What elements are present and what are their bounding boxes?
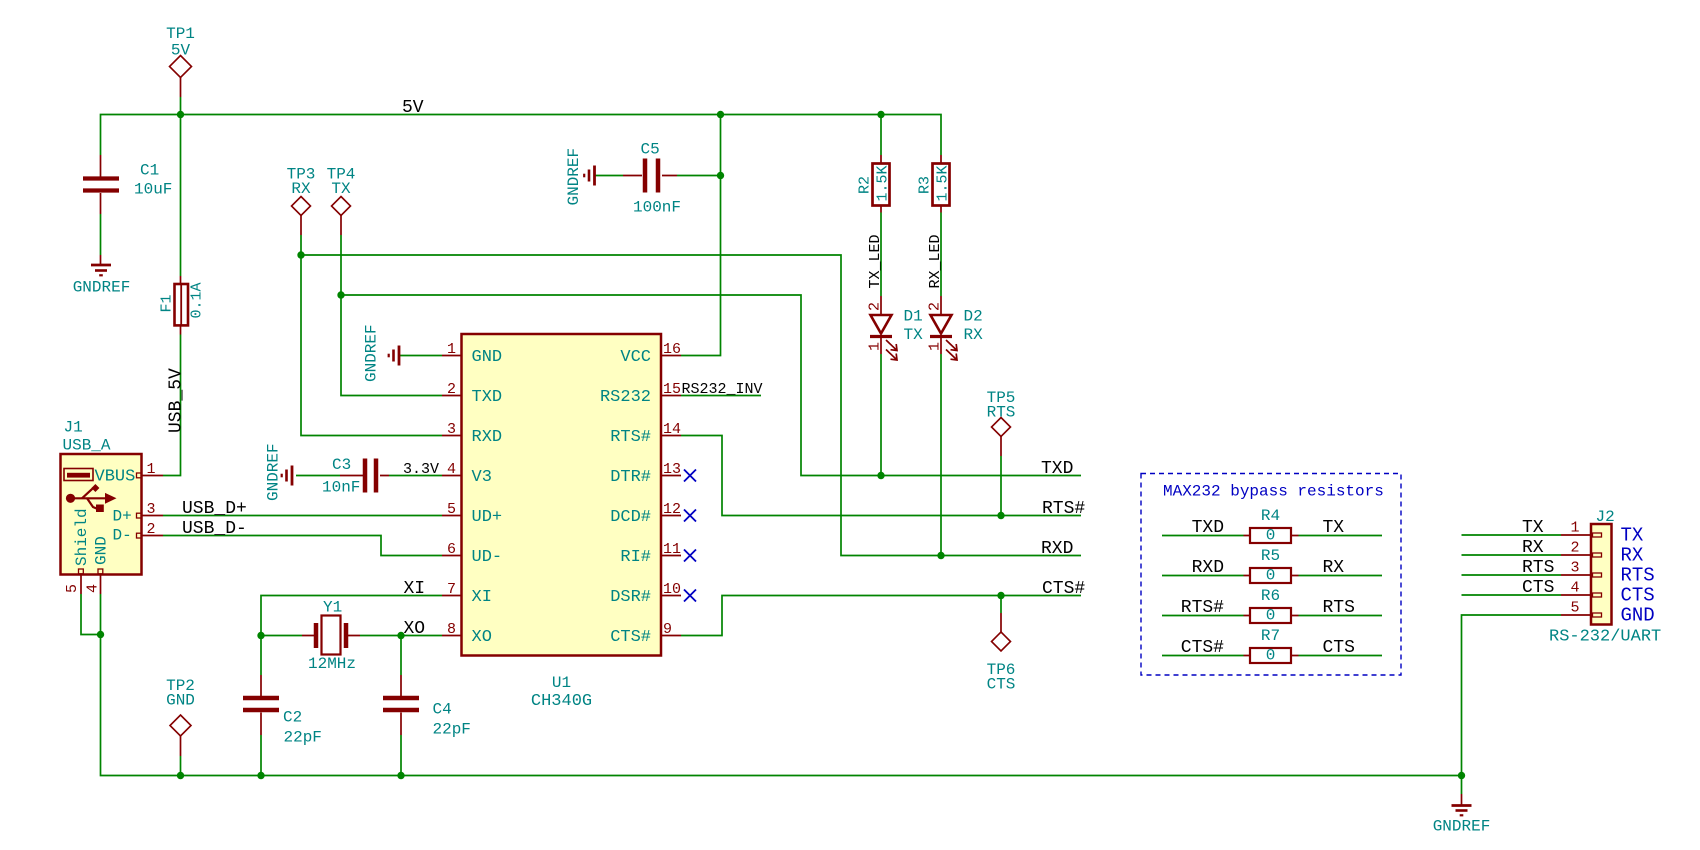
- svg-text:GND: GND: [472, 348, 503, 367]
- svg-text:16: 16: [663, 341, 681, 358]
- svg-text:R4: R4: [1261, 507, 1280, 525]
- svg-text:RS-232/UART: RS-232/UART: [1549, 628, 1661, 647]
- svg-text:TX: TX: [1621, 525, 1644, 547]
- svg-text:CTS#: CTS#: [1042, 579, 1085, 599]
- svg-text:RTS#: RTS#: [1042, 499, 1085, 519]
- svg-text:RXD: RXD: [1192, 558, 1224, 578]
- svg-text:J1: J1: [64, 419, 83, 437]
- svg-text:TXD: TXD: [1192, 518, 1224, 538]
- svg-text:4: 4: [1570, 580, 1579, 597]
- svg-text:DTR#: DTR#: [610, 468, 651, 487]
- svg-text:R3: R3: [917, 176, 934, 194]
- svg-text:100nF: 100nF: [633, 199, 681, 217]
- svg-text:2: 2: [927, 302, 944, 311]
- svg-text:J2: J2: [1596, 508, 1615, 526]
- svg-text:0: 0: [1266, 567, 1276, 585]
- svg-text:2: 2: [867, 302, 884, 311]
- svg-text:XO: XO: [404, 619, 426, 639]
- svg-text:CH340G: CH340G: [531, 692, 592, 711]
- svg-text:1: 1: [927, 342, 944, 351]
- svg-text:3.3V: 3.3V: [403, 461, 439, 478]
- svg-text:10uF: 10uF: [134, 181, 172, 199]
- svg-text:8: 8: [447, 621, 456, 638]
- svg-text:MAX232 bypass resistors: MAX232 bypass resistors: [1163, 483, 1384, 501]
- svg-text:GND: GND: [166, 692, 195, 710]
- svg-text:1: 1: [146, 461, 155, 478]
- svg-text:GNDREF: GNDREF: [265, 443, 283, 501]
- svg-text:RTS: RTS: [987, 404, 1016, 422]
- svg-text:GNDREF: GNDREF: [1433, 818, 1491, 836]
- svg-text:TX: TX: [1522, 518, 1544, 538]
- svg-text:TXD: TXD: [472, 388, 503, 407]
- svg-text:TXD: TXD: [1041, 459, 1073, 479]
- svg-text:12: 12: [663, 501, 681, 518]
- svg-text:C4: C4: [433, 701, 452, 719]
- svg-text:RTS#: RTS#: [1181, 598, 1224, 618]
- svg-text:RTS: RTS: [1323, 598, 1355, 618]
- svg-text:0: 0: [1266, 647, 1276, 665]
- svg-text:3: 3: [1570, 560, 1579, 577]
- svg-text:2: 2: [447, 381, 456, 398]
- svg-text:CTS#: CTS#: [1181, 638, 1224, 658]
- svg-text:1: 1: [1570, 520, 1579, 537]
- svg-text:R6: R6: [1261, 587, 1280, 605]
- svg-text:RX: RX: [1323, 558, 1345, 578]
- svg-text:CTS: CTS: [1522, 578, 1554, 598]
- svg-text:RTS: RTS: [1522, 558, 1554, 578]
- svg-text:10nF: 10nF: [322, 479, 360, 497]
- svg-text:TP1: TP1: [166, 25, 195, 43]
- svg-text:RX: RX: [1522, 538, 1544, 558]
- svg-text:RS232_INV: RS232_INV: [682, 381, 763, 398]
- svg-text:DSR#: DSR#: [610, 588, 651, 607]
- svg-text:RS232: RS232: [600, 388, 651, 407]
- svg-text:2: 2: [146, 521, 155, 538]
- svg-text:C1: C1: [140, 162, 159, 180]
- svg-text:USB_5V: USB_5V: [167, 368, 187, 433]
- svg-text:1.5K: 1.5K: [875, 165, 892, 201]
- svg-text:5: 5: [447, 501, 456, 518]
- svg-text:9: 9: [663, 621, 672, 638]
- svg-text:TX: TX: [331, 180, 351, 198]
- svg-text:VCC: VCC: [620, 348, 651, 367]
- svg-text:10: 10: [663, 581, 681, 598]
- svg-text:C3: C3: [332, 456, 351, 474]
- svg-text:Shield: Shield: [73, 508, 91, 566]
- svg-text:F1: F1: [159, 294, 176, 312]
- svg-text:RX: RX: [291, 180, 311, 198]
- svg-text:GND: GND: [93, 536, 111, 565]
- svg-text:RXD: RXD: [472, 428, 503, 447]
- svg-text:RTS#: RTS#: [610, 428, 651, 447]
- svg-text:1: 1: [447, 341, 456, 358]
- svg-text:USB_D+: USB_D+: [182, 499, 247, 519]
- svg-text:6: 6: [447, 541, 456, 558]
- svg-text:GNDREF: GNDREF: [565, 148, 583, 206]
- svg-text:2: 2: [1570, 540, 1579, 557]
- svg-text:TX_LED: TX_LED: [867, 234, 884, 288]
- svg-text:DCD#: DCD#: [610, 508, 651, 527]
- svg-text:3: 3: [146, 501, 155, 518]
- svg-text:RX_LED: RX_LED: [927, 234, 944, 288]
- svg-text:11: 11: [663, 541, 681, 558]
- svg-text:4: 4: [447, 461, 456, 478]
- svg-text:RX: RX: [1621, 545, 1644, 567]
- svg-text:USB_D-: USB_D-: [182, 519, 247, 539]
- svg-text:13: 13: [663, 461, 681, 478]
- svg-text:USB_A: USB_A: [63, 437, 111, 455]
- svg-text:14: 14: [663, 421, 681, 438]
- svg-text:XI: XI: [404, 579, 426, 599]
- svg-text:D+: D+: [113, 508, 132, 526]
- svg-text:12MHz: 12MHz: [308, 655, 356, 673]
- svg-text:0: 0: [1266, 607, 1276, 625]
- svg-text:1: 1: [867, 342, 884, 351]
- svg-text:5V: 5V: [402, 98, 424, 118]
- svg-text:CTS#: CTS#: [610, 628, 651, 647]
- svg-text:0.1A: 0.1A: [189, 282, 206, 318]
- svg-text:5V: 5V: [171, 42, 191, 60]
- svg-text:RTS: RTS: [1621, 565, 1655, 587]
- svg-text:XI: XI: [472, 588, 492, 607]
- svg-text:R7: R7: [1261, 627, 1280, 645]
- svg-text:R5: R5: [1261, 547, 1280, 565]
- svg-text:XO: XO: [472, 628, 492, 647]
- svg-text:15: 15: [663, 381, 681, 398]
- svg-text:GNDREF: GNDREF: [363, 324, 381, 382]
- svg-text:GNDREF: GNDREF: [73, 279, 131, 297]
- svg-text:VBUS: VBUS: [95, 468, 136, 487]
- svg-text:C5: C5: [641, 141, 660, 159]
- svg-text:RI#: RI#: [620, 548, 651, 567]
- svg-text:5: 5: [1570, 600, 1579, 617]
- svg-text:D-: D-: [113, 527, 132, 545]
- svg-text:1.5K: 1.5K: [935, 165, 952, 201]
- svg-text:Y1: Y1: [323, 599, 342, 617]
- svg-text:V3: V3: [472, 468, 492, 487]
- svg-text:22pF: 22pF: [433, 721, 471, 739]
- svg-text:CTS: CTS: [1323, 638, 1355, 658]
- svg-text:GND: GND: [1621, 605, 1655, 627]
- svg-text:D2: D2: [964, 308, 983, 326]
- svg-text:TX: TX: [1323, 518, 1345, 538]
- svg-text:3: 3: [447, 421, 456, 438]
- svg-text:C2: C2: [283, 709, 302, 727]
- svg-text:U1: U1: [552, 674, 571, 692]
- svg-text:CTS: CTS: [1621, 585, 1655, 607]
- svg-text:RX: RX: [964, 326, 984, 344]
- svg-text:0: 0: [1266, 527, 1276, 545]
- svg-text:TX: TX: [904, 326, 924, 344]
- svg-text:CTS: CTS: [987, 676, 1016, 694]
- svg-text:R2: R2: [857, 176, 874, 194]
- svg-text:UD+: UD+: [472, 508, 503, 527]
- svg-text:4: 4: [85, 584, 102, 593]
- svg-text:UD-: UD-: [472, 548, 503, 567]
- svg-text:5: 5: [64, 584, 81, 593]
- svg-text:D1: D1: [904, 308, 923, 326]
- svg-text:7: 7: [447, 581, 456, 598]
- svg-text:22pF: 22pF: [284, 729, 322, 747]
- svg-text:RXD: RXD: [1041, 539, 1073, 559]
